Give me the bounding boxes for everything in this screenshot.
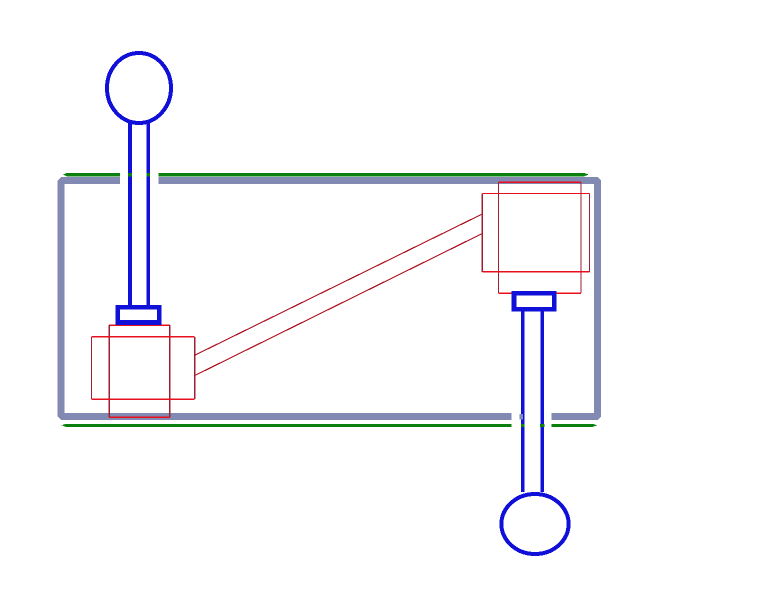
red block D verticals [482,194,589,272]
left plunger head (T block) [118,307,159,322]
green overlap marks on left stem [128,173,132,177]
red block A (left tall) horizontals [109,325,170,417]
green overlap marks on right stem [521,424,525,427]
left plunger knob (blue circle) [107,53,171,123]
green guide line top right segment [158,173,588,177]
clearance gap top wall [120,167,158,188]
green guide line bottom right segment [552,424,598,427]
gray housing box [61,181,597,417]
red block D (right wide) horizontals [482,194,589,272]
red link rod lower line [195,234,483,376]
right plunger stem [523,309,543,492]
right plunger head (T block) [514,293,554,309]
green guide line bottom left segment [62,424,512,427]
red block B (left wide) horizontals [92,337,195,399]
right plunger knob (blue circle) [501,494,568,554]
gray overlap notch on right stem [520,414,523,419]
left plunger stem [130,122,148,305]
red link rod upper line [195,214,483,355]
red block C verticals [498,182,581,293]
red block C (right tall) horizontals [498,182,581,293]
green guide line top left segment [63,173,120,177]
red block A verticals [109,325,170,417]
red block B verticals [92,337,195,399]
clearance gap bottom wall [512,409,552,429]
